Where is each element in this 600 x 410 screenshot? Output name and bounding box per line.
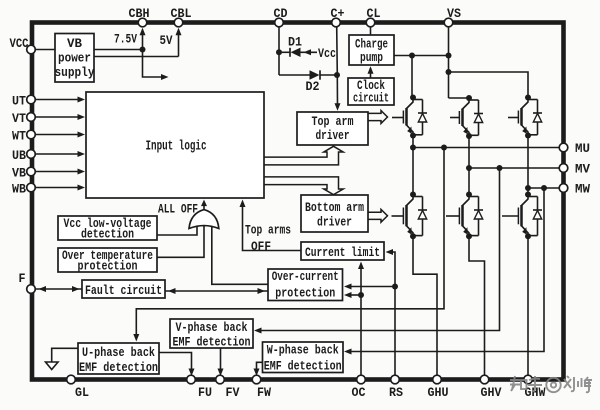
U-phase back EMF detection block [78,343,159,375]
node MV-column [466,165,472,171]
svg-text:OFF: OFF [251,240,271,254]
watermark zhihu @liufeng [510,376,592,392]
svg-text:MW: MW [575,183,590,197]
terminal FV [216,375,225,384]
svg-text:VS: VS [447,7,461,21]
diode D2 [279,70,337,79]
diode Q4 bottom-UD (freewheel) [413,197,427,236]
terminal F [27,285,36,294]
terminal C+ [332,18,341,27]
svg-text:F: F [19,272,26,286]
wire Q6 emitter to GHW [527,236,529,377]
wire U-phase back EMF detection to FU [159,353,195,377]
Charge pump block [349,35,394,65]
transistor Q2 top-V (IGBT) [450,98,469,136]
wire OC branch to Over-current protection [344,292,361,298]
wire VB 5V output to CBL [94,28,182,57]
svg-text:WT: WT [12,130,26,144]
svg-text:CBH: CBH [129,7,150,21]
Vcc low-voltage detection block [58,216,157,242]
svg-text:MU: MU [575,142,590,156]
node Q3 top-W collector [525,95,531,101]
wire Charge pump output to VS rail [394,55,449,57]
node MW-column [525,185,531,191]
wire Input logic to Top arm driver (block arrow) [264,146,343,165]
svg-text:detection: detection [81,228,134,242]
svg-text:EMF detection: EMF detection [79,361,158,375]
ground [46,348,79,369]
terminal CL [366,18,375,27]
svg-text:supply: supply [55,66,95,80]
svg-text:EMF detection: EMF detection [264,360,342,374]
svg-text:VCC: VCC [10,37,29,51]
wire Q3 collector feed [449,72,529,98]
diode Q2 top-VD (freewheel) [469,100,483,135]
wire W-phase back EMF detection to FW [254,362,263,376]
node CD-D1 junction [276,49,282,55]
wire Over-current protection to OR gate [212,227,268,284]
node RS branch [392,284,398,290]
terminal UT [27,95,36,104]
node Q2 top-V emitter [466,133,472,139]
transistor Q5 bottom-V (IGBT) [446,195,469,237]
svg-text:CD: CD [274,7,288,21]
diode Q6 bottom-WD (freewheel) [528,197,542,236]
wire MV output line [469,167,563,169]
wire W phase column [527,136,529,195]
terminal CBL [174,18,183,27]
wire VB 7.5V output to CBH [94,28,146,50]
node OC branch [358,292,364,298]
terminal OC [357,375,366,384]
svg-text:Vcc: Vcc [318,47,336,61]
wire MW output line [528,187,563,189]
terminal RS [391,375,400,384]
wire Input logic to Bottom arm driver (block arrow) [264,177,343,195]
svg-text:GHV: GHV [481,386,502,400]
svg-text:driver: driver [316,129,350,143]
wire Q5 emitter to GHV [469,236,485,377]
terminal MW [559,184,568,193]
wire Q4 emitter to GHU [413,236,437,377]
wire VT input to Input logic [35,114,85,120]
node Q4 bottom-U emitter [410,233,416,239]
wire RS to Current limit [386,249,396,377]
wire MU feedback to U-phase back EMF detection [133,148,444,342]
terminal MV [559,164,568,173]
terminal GHV [480,375,489,384]
svg-text:ALL OFF: ALL OFF [158,203,198,217]
node MV-feedback [497,165,503,171]
svg-text:Charge: Charge [355,38,388,52]
wire Fault circuit to Over-current protection (bidirectional) [165,288,268,294]
svg-text:GHU: GHU [428,386,449,400]
svg-text:C+: C+ [331,7,345,21]
OR gate (fault combine) [189,210,219,229]
wire OC to Current limit [358,262,364,378]
IC border frame [32,23,564,380]
wire Clock circuit to Charge pump [368,66,374,78]
terminal GL [67,375,76,384]
svg-text:Current limit: Current limit [305,246,380,260]
wire MU output line [413,147,563,149]
svg-text:CL: CL [367,7,381,21]
diode Q3 top-WD (freewheel) [528,100,542,135]
terminal MU [559,143,568,152]
svg-text:protection: protection [275,287,335,301]
transistor Q3 top-W (IGBT) [508,98,528,136]
wire MW feedback to W-phase back EMF detection [344,188,544,355]
transistor Q4 bottom-U (IGBT) [392,195,414,237]
wire F to Fault circuit (bidirectional) [36,286,82,292]
node Q6 bottom-W collector [525,192,531,198]
wire UT input to Input logic [35,97,85,103]
svg-text:EMF detection: EMF detection [173,336,251,350]
svg-text:Fault circuit: Fault circuit [85,284,162,298]
terminal VS [444,18,453,27]
wire Q2 collector feed [449,97,469,99]
wire WT input to Input logic [35,132,85,138]
svg-text:Input logic: Input logic [146,140,207,155]
svg-text:UT: UT [12,95,26,109]
svg-text:UB: UB [12,149,26,163]
wire Vcc feed into D1 [301,49,318,55]
wire VB input to Input logic [35,169,85,175]
wire Bottom arm driver gate output (block arrow) [368,209,388,222]
svg-text:D1: D1 [288,36,302,50]
wire V phase column [468,136,470,195]
svg-text:driver: driver [317,216,352,230]
Input logic block [86,92,264,198]
diode Q5 bottom-VD (freewheel) [469,197,483,236]
wire Current limit to Input logic (Top arms OFF) [240,200,302,251]
Bottom arm driver block [301,195,368,232]
terminal FU [187,375,196,384]
svg-text:MV: MV [575,163,590,177]
node MW-feedback [541,185,547,191]
svg-text:pump: pump [360,51,383,65]
svg-text:Top arms: Top arms [245,224,291,238]
diode Q1 top-UD (freewheel) [413,100,427,135]
wire OR gate to Input logic (ALL OFF) [201,200,207,210]
terminal WT [27,130,36,139]
terminal WB [27,183,36,192]
node MU-column [410,145,416,151]
node Q3 top-W emitter [525,133,531,139]
svg-text:U-phase back: U-phase back [82,346,155,360]
node Q1 top-U collector [410,95,416,101]
node VS branch [446,69,452,75]
svg-text:VB: VB [12,167,26,181]
svg-text:WB: WB [12,183,26,197]
Fault circuit block [82,280,165,298]
node D2-C+ junction [334,72,340,78]
Over temperature protection block [58,248,157,274]
node Q1 top-U emitter [410,133,416,139]
Clock circuit block [348,78,394,106]
svg-text:GL: GL [75,386,89,400]
transistor Q6 bottom-W (IGBT) [502,195,528,237]
wire VS vertical [448,27,450,99]
svg-text:D2: D2 [306,80,320,94]
node Q5 bottom-V emitter [466,233,472,239]
wire Q1 collector feed [411,56,413,98]
svg-text:FU: FU [198,386,212,400]
svg-text:Over-current: Over-current [272,270,339,284]
node charge pump rail A [409,53,415,59]
diode D1 [290,48,301,57]
wire Over temperature protection to OR gate [157,225,204,258]
terminal CD [275,18,284,27]
Over-current protection block [268,269,343,301]
wire WB input to Input logic [35,185,85,191]
svg-text:VT: VT [12,112,26,126]
svg-text:FW: FW [257,386,271,400]
wire CD vertical [278,27,280,76]
terminal VT [27,113,36,122]
svg-text:5V: 5V [160,34,173,48]
wire VCC to VB power supply [35,49,55,51]
terminal GHW [524,375,533,384]
svg-text:Bottom arm: Bottom arm [305,201,364,215]
svg-text:7.5V: 7.5V [114,33,137,47]
wire Top arm driver gate output (block arrow) [368,111,388,124]
V-phase back EMF detection block [170,319,253,350]
svg-text:CBL: CBL [171,7,192,21]
wire V-phase back EMF detection to FV [218,348,224,376]
svg-text:circuit: circuit [353,92,389,106]
wire U phase column [412,136,414,195]
wire D1 branch [279,51,290,53]
node Q4 bottom-U collector [410,192,416,198]
node charge pump rail B [446,53,452,59]
svg-text:protection: protection [78,260,138,274]
svg-text:power: power [58,52,91,66]
svg-text:OC: OC [352,386,366,400]
Top arm driver block [297,112,368,145]
terminal VCC [27,45,36,54]
node 7.5V junction [140,47,146,53]
svg-text:V-phase back: V-phase back [176,321,248,335]
Current limit block [301,242,384,260]
terminal UB [27,150,36,159]
svg-text:FV: FV [226,386,240,400]
transistor Q1 top-U (IGBT) [392,98,413,136]
wire UB input to Input logic [35,151,85,157]
VB power supply block [55,34,95,83]
wire RS branch to Over-current protection [344,284,395,290]
svg-text:RS: RS [389,386,403,400]
label Top arms OFF [245,224,291,255]
svg-text:W-phase back: W-phase back [267,344,339,358]
terminal VB [27,167,36,176]
terminal GHU [433,375,442,384]
svg-text:Top arm: Top arm [312,115,354,129]
wire Vcc low-voltage detection to OR gate [157,227,197,236]
node Q6 bottom-W emitter [525,233,531,239]
node Q5 bottom-V collector [466,192,472,198]
node MU-feedback [441,145,447,151]
terminal CBH [138,18,147,27]
W-phase back EMF detection block [263,342,344,374]
wire CL to Charge pump [370,27,372,36]
wire C+ to Top arm driver [335,27,341,111]
wire 7.5V to internal logic [143,50,169,81]
terminal FW [252,375,261,384]
svg-text:VB: VB [67,37,82,51]
node Q2 top-V collector [466,95,472,101]
wire MV feedback to V-phase back EMF detection [254,168,500,334]
